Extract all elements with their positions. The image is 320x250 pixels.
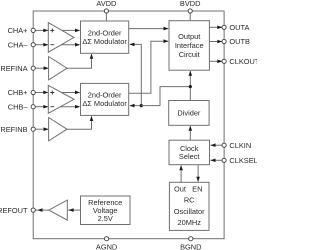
pin CLKOUT bbox=[222, 57, 260, 66]
svg-text:BVDD: BVDD bbox=[180, 0, 201, 8]
RC oscillator box bbox=[169, 182, 209, 230]
chip boundary box bbox=[33, 11, 224, 239]
output interface circuit box bbox=[169, 21, 209, 70]
refout buffer (points left) bbox=[49, 200, 68, 220]
svg-text:RC: RC bbox=[184, 196, 195, 205]
svg-text:Select: Select bbox=[179, 152, 200, 161]
svg-text:ΔΣ Modulator: ΔΣ Modulator bbox=[82, 37, 127, 46]
pin CLKIN bbox=[222, 141, 251, 150]
pin OUTB bbox=[222, 37, 250, 46]
wire clock branch from divider line bbox=[141, 87, 190, 106]
wire OUTA bbox=[209, 26, 222, 30]
svg-text:2.5V: 2.5V bbox=[98, 214, 113, 223]
svg-text:CLKOUT: CLKOUT bbox=[229, 57, 257, 66]
wire amp A out to modulator A (upper) bbox=[60, 29, 80, 33]
svg-text:Output: Output bbox=[178, 32, 200, 41]
wire amp A out to modulator A (lower) bbox=[58, 43, 80, 47]
svg-text:REFINA: REFINA bbox=[0, 64, 27, 73]
pin REFINB bbox=[0, 125, 35, 134]
wire refout buffer to REFOUT pin bbox=[35, 208, 49, 212]
buffer A (REFINA) bbox=[49, 57, 67, 80]
pin AVDD bbox=[96, 0, 116, 13]
svg-text:CHB–: CHB– bbox=[8, 102, 29, 111]
svg-text:OUTB: OUTB bbox=[229, 37, 250, 46]
modulator B box bbox=[81, 83, 129, 115]
svg-text:Divider: Divider bbox=[177, 108, 201, 117]
op-amp A bbox=[48, 23, 74, 53]
svg-text:AGND: AGND bbox=[96, 243, 117, 250]
pin CHB- bbox=[8, 102, 36, 111]
svg-text:BGND: BGND bbox=[180, 243, 201, 250]
svg-text:20MHz: 20MHz bbox=[177, 218, 201, 227]
svg-text:CLKSEL: CLKSEL bbox=[229, 156, 257, 165]
wire CLKOUT bbox=[209, 60, 222, 64]
wire OUTB bbox=[209, 40, 222, 44]
junction dot divider line bbox=[189, 85, 192, 88]
pin OUTA bbox=[222, 23, 249, 32]
svg-text:CHA–: CHA– bbox=[8, 40, 29, 49]
wire clock to modulator B bbox=[130, 104, 142, 108]
wire amp B out to modulator B (upper) bbox=[60, 91, 80, 95]
svg-text:Out: Out bbox=[174, 184, 186, 193]
pin AGND bbox=[96, 237, 117, 250]
svg-text:EN: EN bbox=[192, 184, 202, 193]
divider box bbox=[169, 101, 209, 126]
svg-text:CHA+: CHA+ bbox=[8, 26, 28, 35]
junction dot clock branch bbox=[140, 104, 143, 107]
pin BVDD bbox=[180, 0, 201, 13]
wire divider to output interface bbox=[189, 71, 193, 101]
buffer B (REFINB) bbox=[49, 118, 67, 141]
pin CHB+ bbox=[8, 88, 36, 97]
pin REFINA bbox=[0, 64, 35, 73]
svg-text:REFOUT: REFOUT bbox=[0, 206, 28, 215]
wire modulator A data out to output interface bbox=[129, 27, 169, 31]
wire oscillator Out to clock select bbox=[179, 165, 183, 182]
wire REFINA input bbox=[35, 66, 48, 70]
svg-text:OUTA: OUTA bbox=[229, 23, 249, 32]
svg-text:Circuit: Circuit bbox=[179, 50, 200, 59]
op-amp B bbox=[48, 85, 74, 113]
svg-text:CHB+: CHB+ bbox=[8, 88, 28, 97]
wire clock select EN to oscillator bbox=[196, 165, 200, 182]
wire amp B out to modulator B (lower) bbox=[58, 105, 80, 109]
pin CHA+ bbox=[8, 26, 36, 35]
clock select box bbox=[169, 140, 210, 165]
wire CHB+ input bbox=[35, 91, 48, 95]
wire buffer B to modulator B bottom bbox=[67, 116, 93, 129]
svg-text:ΔΣ Modulator: ΔΣ Modulator bbox=[82, 99, 127, 108]
wire BVDD to output interface top bbox=[189, 11, 191, 21]
svg-text:Interface: Interface bbox=[175, 41, 204, 50]
svg-text:Oscillator: Oscillator bbox=[174, 207, 205, 216]
svg-text:REFINB: REFINB bbox=[0, 125, 27, 134]
wire modulator B data out to output interface bbox=[129, 39, 169, 93]
reference voltage box bbox=[81, 196, 131, 225]
pin BGND bbox=[180, 237, 201, 250]
wire REFINB input bbox=[35, 127, 48, 131]
modulator A box bbox=[81, 21, 129, 53]
wire buffer A to modulator A bottom bbox=[67, 54, 93, 68]
wire clock select to divider bbox=[189, 126, 193, 140]
pin REFOUT bbox=[0, 206, 35, 215]
svg-text:AVDD: AVDD bbox=[96, 0, 116, 8]
wire CHA+ input bbox=[35, 29, 48, 33]
pin CLKSEL bbox=[222, 156, 258, 165]
wire reference box to refout buffer bbox=[68, 208, 81, 212]
wire CLKSEL bbox=[211, 159, 223, 163]
wire CHB- input bbox=[35, 105, 48, 109]
wire CLKIN bbox=[211, 143, 223, 147]
wire AVDD to modulator A top bbox=[105, 11, 107, 21]
pin CHA- bbox=[8, 40, 36, 49]
svg-text:CLKIN: CLKIN bbox=[229, 141, 251, 150]
wire clock to modulator A bbox=[130, 43, 142, 106]
wire CHA- input bbox=[35, 43, 48, 47]
